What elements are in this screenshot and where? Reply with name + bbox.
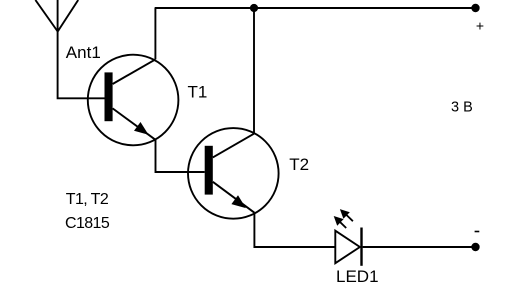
transistor T1: [88, 55, 179, 146]
wire junction to T2 collector: [253, 8, 255, 134]
wire T1 collector to positive rail: [154, 8, 156, 59]
svg-text:T1, T2: T1, T2: [66, 191, 109, 208]
transistor T2: [188, 128, 279, 219]
svg-text:C1815: C1815: [65, 215, 110, 232]
junction top rail node: [250, 4, 258, 12]
terminal negative: [471, 243, 479, 251]
svg-text:LED1: LED1: [336, 267, 379, 286]
label -: [475, 231, 480, 233]
wire antenna to T1 base: [58, 32, 105, 99]
LED LED1: [334, 209, 362, 266]
wire positive rail: [155, 7, 476, 9]
svg-text:T1: T1: [188, 83, 208, 102]
svg-text:+: +: [476, 17, 484, 33]
wire LED cathode to negative terminal: [363, 246, 476, 248]
wire T2 emitter to LED anode: [254, 213, 335, 247]
svg-text:T2: T2: [289, 155, 309, 174]
terminal positive: [471, 4, 479, 12]
svg-text:3 В: 3 В: [451, 100, 473, 116]
wire T1 emitter to T2 base: [156, 140, 205, 172]
antenna Ant1: [35, 0, 78, 32]
svg-text:Ant1: Ant1: [66, 43, 101, 62]
